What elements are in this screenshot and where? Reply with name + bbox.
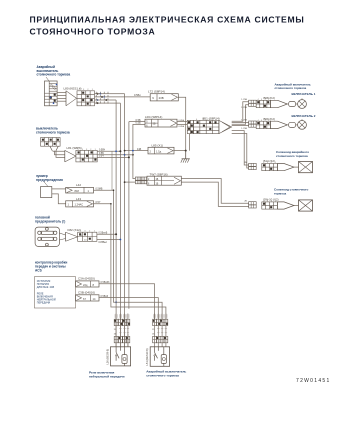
wire S2 funnel bbox=[50, 146, 52, 151]
connector L85 box bbox=[148, 147, 174, 154]
svg-text:0.5Ч: 0.5Ч bbox=[99, 156, 104, 158]
wire LR4 out bbox=[177, 121, 187, 123]
wire 8B1 bottom to ground net bbox=[189, 134, 191, 151]
lamp HL2 holder bbox=[289, 122, 296, 127]
relay contact bbox=[154, 347, 156, 353]
svg-text:22д: 22д bbox=[83, 283, 88, 287]
wire leader bbox=[44, 182, 48, 187]
svg-text:1Б: 1Б bbox=[156, 183, 159, 185]
svg-text:0.5БЧ: 0.5БЧ bbox=[99, 150, 106, 152]
connector Y1 wedge bbox=[277, 164, 294, 171]
lamp HL2 bulb bbox=[296, 124, 298, 126]
svg-text:0.5Б133: 0.5Б133 bbox=[101, 281, 111, 284]
svg-text:1.25B: 1.25B bbox=[241, 120, 247, 122]
svg-text:2: 2 bbox=[265, 120, 266, 122]
switch S2 body bbox=[41, 138, 61, 147]
svg-text:L85 (X1): L85 (X1) bbox=[152, 143, 164, 147]
connector L43 box bbox=[66, 201, 94, 207]
wire buzzer to L43 bbox=[52, 194, 66, 204]
svg-text:L50 (KES9 6): L50 (KES9 6) bbox=[106, 349, 110, 365]
svg-text:предупреждения: предупреждения bbox=[36, 178, 63, 182]
wire L81 outputs bbox=[97, 150, 120, 152]
svg-text:стояночного тормоза: стояночного тормоза bbox=[36, 130, 70, 134]
wire LR4 feeder 2 bbox=[133, 124, 136, 178]
svg-text:1.25B: 1.25B bbox=[241, 128, 247, 130]
svg-text:0.5Бл: 0.5Бл bbox=[134, 93, 141, 97]
svg-text:0.85Б: 0.85Б bbox=[179, 120, 185, 122]
svg-text:0.5БелБ: 0.5БелБ bbox=[99, 233, 108, 235]
wire bus to TW7 row2 bbox=[125, 181, 136, 183]
wire bus to L85 bbox=[125, 150, 148, 152]
svg-text:стояночного тормоза: стояночного тормоза bbox=[276, 154, 308, 158]
svg-text:стояночного тормоза: стояночного тормоза bbox=[37, 73, 71, 77]
ground bbox=[185, 151, 187, 159]
svg-text:1.25B: 1.25B bbox=[241, 107, 247, 109]
wire 8B1 to lamp2 bbox=[232, 122, 249, 124]
svg-text:0.5МБ: 0.5МБ bbox=[96, 187, 103, 190]
connector Y2 wedge bbox=[277, 202, 294, 209]
svg-text:0.5Б13: 0.5Б13 bbox=[101, 295, 109, 298]
wire S1 rows out bbox=[95, 93, 110, 95]
svg-text:72W01451: 72W01451 bbox=[296, 378, 331, 384]
svg-text:предохранитель (!): предохранитель (!) bbox=[35, 220, 65, 224]
connector F82 wedge bbox=[66, 232, 78, 241]
svg-text:0.5Б: 0.5Б bbox=[136, 122, 141, 125]
wire LR4 inputs bbox=[129, 121, 145, 123]
relay pins to box bbox=[154, 343, 156, 347]
wire S1 to connector bbox=[57, 91, 66, 93]
connector TW7 box bbox=[147, 176, 181, 185]
fuse block bbox=[35, 227, 59, 246]
svg-text:ВКЛЮЧАТЕЛЬ 1: ВКЛЮЧАТЕЛЬ 1 bbox=[292, 92, 316, 96]
solenoid Y1 coil box bbox=[294, 166, 299, 168]
svg-text:ПРИНЦИПИАЛЬНАЯ ЭЛЕКТРИЧЕСКАЯ С: ПРИНЦИПИАЛЬНАЯ ЭЛЕКТРИЧЕСКАЯ СХЕМА СИСТЕ… bbox=[30, 15, 305, 25]
connector L81 wedge bbox=[65, 150, 76, 162]
svg-text:стояночного тормоза: стояночного тормоза bbox=[146, 373, 179, 377]
relay mid labels bbox=[154, 326, 156, 337]
wire LR4 feeder 1 bbox=[128, 122, 130, 309]
svg-text:1.24АС: 1.24АС bbox=[75, 203, 84, 207]
svg-text:4: 4 bbox=[257, 120, 258, 122]
svg-text:стояночного тормоза: стояночного тормоза bbox=[275, 86, 307, 90]
svg-text:L43: L43 bbox=[76, 197, 81, 201]
wire TW7 to solenoid2 bbox=[181, 179, 249, 204]
wire L43 out bbox=[94, 204, 166, 319]
lamp HL1 holder bbox=[289, 101, 296, 106]
relay pin grid lower bbox=[153, 336, 157, 342]
connector TW7 left cells bbox=[135, 177, 140, 180]
svg-text:0.85Б: 0.85Б bbox=[179, 126, 185, 128]
wire leader bbox=[46, 77, 49, 81]
wire bus junction dots bbox=[115, 301, 117, 303]
svg-text:818: 818 bbox=[75, 189, 80, 193]
solenoid Y2 coil box bbox=[294, 205, 299, 207]
relay coil bbox=[161, 355, 166, 364]
wire L72 to ground net bbox=[178, 97, 185, 150]
svg-text:ACS: ACS bbox=[35, 268, 42, 272]
svg-text:ВКЛЮЧАТЕЛЬ 2: ВКЛЮЧАТЕЛЬ 2 bbox=[292, 114, 316, 118]
connector HL2 wedge bbox=[270, 121, 287, 128]
connector 8B1 chevron bbox=[219, 120, 232, 133]
wire C3B to relay2 bbox=[99, 298, 158, 320]
svg-text:ДЛЯ РЕЖ. 24В: ДЛЯ РЕЖ. 24В bbox=[37, 286, 55, 289]
connector C3A box bbox=[76, 281, 99, 287]
svg-text:5B: 5B bbox=[153, 122, 156, 125]
relay pin grid lower bbox=[114, 336, 118, 342]
svg-text:3: 3 bbox=[261, 120, 262, 122]
svg-text:C3B (04016): C3B (04016) bbox=[78, 291, 95, 295]
svg-text:8Б1 (S8P14): 8Б1 (S8P14) bbox=[203, 116, 220, 120]
svg-text:0.85Бел: 0.85Бел bbox=[99, 242, 108, 244]
connector HL1 wedge bbox=[270, 100, 287, 107]
relay pin grid upper bbox=[114, 319, 118, 325]
solenoid Y1 inline connector bbox=[249, 163, 257, 166]
connector 8B1 left cells bbox=[187, 120, 193, 133]
lamp HL1 inline connector bbox=[249, 100, 257, 103]
relay box bbox=[111, 347, 131, 366]
relay pin top labels bbox=[154, 314, 156, 320]
connector wedge L80 bbox=[66, 91, 77, 106]
svg-text:ПЕРЕДАЧИ: ПЕРЕДАЧИ bbox=[37, 302, 51, 305]
svg-text:L72 (S8P14): L72 (S8P14) bbox=[148, 89, 165, 93]
relay pins to box bbox=[115, 343, 117, 347]
svg-text:C3A (04020): C3A (04020) bbox=[78, 277, 95, 281]
wire L42 out bbox=[94, 190, 163, 319]
svg-text:41Б: 41Б bbox=[137, 148, 142, 151]
connector grid junctions bbox=[95, 92, 97, 94]
relay pin top labels bbox=[115, 314, 117, 320]
lamp HL2 inline connector bbox=[249, 121, 257, 124]
svg-text:тормоза: тормоза bbox=[274, 191, 286, 195]
switch S1 body bbox=[45, 81, 58, 106]
svg-text:1: 1 bbox=[268, 120, 269, 122]
buzzer box bbox=[41, 187, 52, 198]
svg-text:23B: 23B bbox=[159, 96, 164, 100]
relay coil bbox=[122, 355, 127, 364]
svg-text:L81 (S8P6): L81 (S8P6) bbox=[67, 146, 82, 150]
controller dashed box bbox=[34, 277, 75, 308]
connector C3B box bbox=[76, 295, 99, 301]
svg-text:LR4 (S8P14): LR4 (S8P14) bbox=[145, 115, 162, 119]
svg-text:1Б: 1Б bbox=[156, 179, 159, 181]
svg-text:СТОЯНОЧНОГО ТОРМОЗА: СТОЯНОЧНОГО ТОРМОЗА bbox=[30, 27, 156, 37]
wire C3A to relay2 bbox=[99, 284, 155, 319]
svg-text:L51 (KES10 6): L51 (KES10 6) bbox=[145, 348, 149, 365]
svg-text:1.5д: 1.5д bbox=[156, 149, 162, 153]
connector L72 box bbox=[150, 94, 178, 101]
wire F82 out2 bbox=[97, 239, 121, 241]
relay pin grid upper bbox=[153, 319, 157, 325]
wire sw1 rows to bus bbox=[110, 93, 125, 95]
connector L42 box bbox=[66, 187, 94, 193]
svg-text:B14 (X2): B14 (X2) bbox=[264, 159, 275, 163]
relay box bbox=[150, 347, 169, 367]
wire 8B1 to lamp1 bbox=[232, 102, 249, 122]
svg-text:0.5Y: 0.5Y bbox=[96, 201, 101, 204]
connector LR4 box bbox=[145, 119, 177, 127]
wire fuse to F82 bbox=[59, 233, 65, 235]
wire buzzer to L42 bbox=[52, 188, 66, 190]
svg-text:1.25B: 1.25B bbox=[241, 99, 247, 101]
wire F82 out1 bbox=[97, 233, 116, 235]
wire 8B1 to solenoid1 bbox=[232, 131, 249, 165]
svg-text:L42: L42 bbox=[76, 183, 81, 187]
relay contact bbox=[115, 347, 117, 353]
wire L85 to ground bbox=[174, 150, 186, 152]
solenoid Y2 inline connector bbox=[249, 202, 257, 205]
relay mid labels bbox=[115, 326, 117, 337]
svg-text:TW7 (S8P16): TW7 (S8P16) bbox=[150, 172, 168, 176]
lamp HL1 bulb bbox=[296, 103, 298, 105]
svg-text:нейтральной передачи: нейтральной передачи bbox=[89, 374, 125, 378]
wire vertical bus bbox=[115, 100, 117, 347]
